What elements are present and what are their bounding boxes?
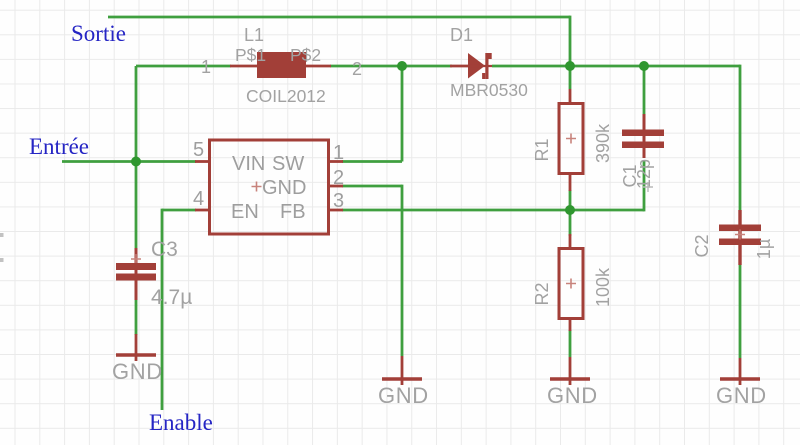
pin 3 stub (330, 209, 343, 212)
svg-text:1: 1 (333, 142, 344, 164)
op-amp U1 regulator body (210, 140, 329, 234)
wire GND pin 2 (342, 185, 402, 356)
svg-text:P$1: P$1 (235, 45, 266, 65)
svg-text:100k: 100k (593, 267, 613, 307)
wire SW node down to pin 1 (342, 66, 402, 162)
svg-text:5: 5 (193, 139, 204, 161)
svg-text:R2: R2 (532, 282, 552, 305)
svg-text:D1: D1 (450, 25, 473, 45)
svg-text:4: 4 (193, 188, 204, 210)
junction node Entree (131, 157, 141, 167)
wire L1 to SW node (330, 65, 402, 68)
svg-text:1: 1 (201, 57, 211, 77)
wire R2 to ground (569, 330, 572, 357)
wire node to C2 branch (644, 65, 740, 211)
resistor R2 (559, 234, 583, 331)
svg-text:3: 3 (333, 190, 344, 212)
svg-text:4.7µ: 4.7µ (151, 286, 192, 309)
resistor R1 (559, 89, 583, 191)
svg-text:FB: FB (280, 201, 306, 223)
inductor L1 (230, 52, 331, 78)
svg-text:GND: GND (547, 383, 598, 408)
wire Enable to pin 4 (162, 209, 196, 410)
svg-text:COIL2012: COIL2012 (246, 86, 326, 106)
svg-text:2: 2 (352, 59, 362, 79)
junction node output-C1 (639, 61, 649, 71)
wire down to R1 (569, 66, 572, 89)
pin 5 stub (195, 160, 208, 163)
svg-text:GND: GND (112, 359, 163, 384)
wire down to C1 (643, 66, 646, 116)
capacitor C2 (719, 210, 761, 265)
capacitor C3 (116, 248, 156, 300)
svg-text:GND: GND (716, 383, 767, 408)
stray mark left edge 2 (0, 258, 4, 262)
capacitor C1 (622, 114, 664, 158)
svg-text:Sortie: Sortie (71, 21, 126, 46)
svg-text:MBR0530: MBR0530 (450, 80, 528, 100)
svg-text:C2: C2 (692, 234, 712, 257)
svg-text:Enable: Enable (149, 410, 213, 435)
svg-text:SW: SW (272, 153, 304, 175)
wire Sortie drop to diode node (569, 16, 572, 66)
pin 1 stub (330, 160, 343, 163)
wire diode cathode to node (492, 65, 570, 68)
wire Sortie top rail (108, 16, 570, 19)
stray mark left edge 1 (0, 233, 4, 237)
ground GND under pin 2 (382, 356, 422, 385)
wire Entree riser to L1 (136, 66, 231, 248)
ground GND under R2 (550, 357, 590, 385)
svg-text:GND: GND (262, 177, 306, 199)
junction node FB divider (565, 205, 575, 215)
svg-text:C3: C3 (151, 238, 178, 261)
svg-text:VIN: VIN (232, 153, 265, 175)
svg-text:EN: EN (231, 201, 259, 223)
wire C3 to ground (135, 300, 138, 335)
svg-text:P$2: P$2 (290, 45, 321, 65)
svg-text:2: 2 (333, 167, 344, 189)
diode D1 (450, 53, 492, 79)
ground GND under C2 (720, 358, 760, 385)
svg-text:1µ: 1µ (754, 239, 774, 259)
ground GND under C3 (116, 334, 156, 361)
svg-text:R1: R1 (532, 138, 552, 161)
svg-text:Entrée: Entrée (29, 134, 89, 159)
wire Entree to pin 5 (62, 160, 196, 163)
wire node to C1 branch (570, 65, 644, 68)
wire FB pin 3 to divider (342, 209, 570, 212)
pin 4 stub (195, 209, 208, 212)
svg-text:390k: 390k (593, 123, 613, 163)
svg-text:12p: 12p (634, 159, 654, 189)
origin mark C1 (643, 182, 653, 192)
svg-text:GND: GND (378, 383, 429, 408)
pin 2 stub (330, 185, 343, 188)
wire divider node vertical (569, 190, 572, 236)
svg-text:L1: L1 (244, 25, 264, 45)
wire SW node to diode anode (402, 65, 452, 68)
wire C2 to ground (739, 265, 742, 358)
junction node SW (397, 61, 407, 71)
junction node output-R1 (565, 61, 575, 71)
origin cross U1 (252, 182, 262, 192)
wire divider node to C1 bottom (570, 160, 644, 211)
